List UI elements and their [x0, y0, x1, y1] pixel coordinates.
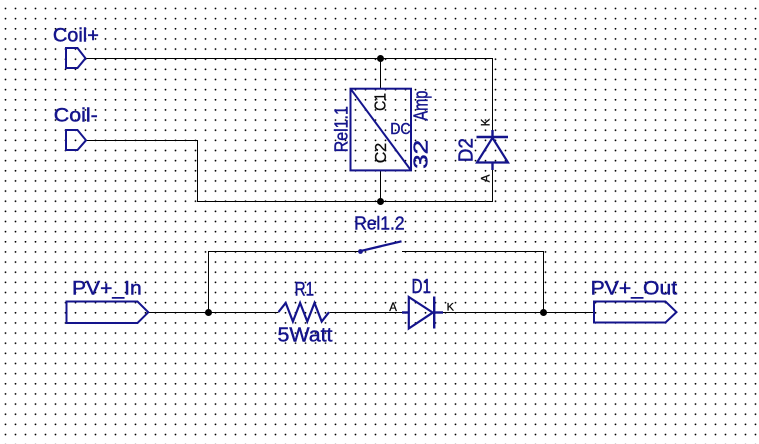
svg-text:PV+_Out: PV+_Out [591, 279, 678, 300]
svg-text:Rel1.2: Rel1.2 [354, 213, 405, 234]
wire D1 cathode to PV+_Out port [443, 312, 594, 314]
svg-text:Coil-: Coil- [54, 105, 98, 126]
svg-text:C2: C2 [373, 143, 390, 164]
wire switch branch right [402, 252, 544, 313]
wire PV+_In port to R1 [149, 312, 279, 314]
node junction at lower rail x380 [377, 198, 384, 205]
port PV+_Out [594, 302, 677, 323]
node junction main rail left [205, 309, 212, 316]
svg-text:D1: D1 [412, 276, 432, 298]
node junction at top rail x380 [377, 55, 384, 62]
svg-text:D2: D2 [456, 138, 478, 162]
svg-text:Amp: Amp [411, 91, 433, 121]
wire Coil- to lower rail to D2 anode [86, 141, 493, 202]
resistor R1 zigzag [279, 303, 330, 322]
svg-text:K: K [480, 118, 492, 126]
node junction main rail right [540, 309, 547, 316]
diode D2 [477, 130, 509, 170]
svg-text:R1: R1 [295, 279, 315, 301]
wire R1 to D1 anode [330, 312, 403, 314]
wire junction riser to relay pin C1 [380, 59, 382, 89]
svg-text:5Watt: 5Watt [278, 325, 333, 347]
port Coil- [66, 130, 86, 150]
svg-text:C1: C1 [373, 93, 390, 111]
svg-text:Coil+: Coil+ [53, 25, 99, 46]
wire Coil+ to D2 cathode (top rail) [86, 59, 493, 131]
wire switch branch left [209, 252, 359, 313]
svg-text:K: K [447, 301, 455, 313]
switch Rel1.2 contact circle [358, 249, 363, 254]
svg-text:32: 32 [411, 140, 433, 169]
diode D1 [402, 297, 443, 329]
relay coil Rel1.1 box [351, 89, 412, 171]
switch Rel1.2 blade [362, 241, 402, 250]
port PV+_In [67, 302, 149, 324]
svg-text:A: A [389, 302, 397, 314]
svg-text:A: A [480, 174, 492, 182]
wire relay pin C2 to lower rail [380, 171, 382, 202]
svg-text:Rel1.1: Rel1.1 [330, 106, 351, 152]
svg-text:DC: DC [390, 121, 410, 138]
svg-text:PV+_In: PV+_In [72, 279, 142, 300]
port Coil+ [66, 48, 86, 68]
